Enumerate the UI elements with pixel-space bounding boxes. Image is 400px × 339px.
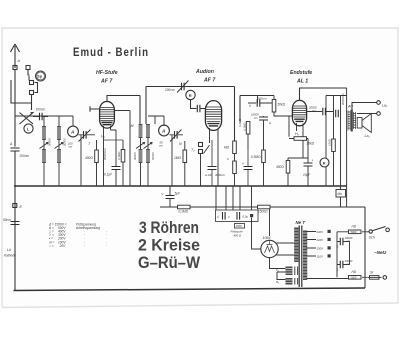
terminal La2 bottom bbox=[377, 112, 381, 116]
tube U1 AF7 HF pentode bbox=[100, 102, 115, 134]
resistor 0,1M smoothing bbox=[178, 205, 191, 209]
svg-text:1000: 1000 bbox=[351, 275, 357, 279]
svg-text:Δ: Δ bbox=[336, 245, 339, 249]
antenna coil L1b bbox=[42, 149, 46, 163]
svg-text:Sp: Sp bbox=[37, 75, 42, 79]
audion cathode to bus bbox=[217, 135, 219, 186]
svg-text:K: K bbox=[323, 160, 326, 165]
coil tap switch arrow 4 bbox=[144, 143, 153, 149]
antenna coil L1a bbox=[42, 126, 46, 140]
capacitor earth series bbox=[11, 222, 20, 225]
wire anode resistor down bbox=[234, 154, 236, 162]
svg-text:T₂: T₂ bbox=[191, 148, 195, 152]
smoothing cap 10000cm lower bbox=[337, 264, 350, 266]
field coil 1500 box bbox=[235, 224, 245, 229]
band switch cross L bbox=[20, 113, 34, 125]
antenna terminal left bbox=[13, 66, 17, 70]
terminal La2 top bbox=[377, 101, 381, 105]
wire anode supply row bbox=[240, 96, 274, 122]
filter cap 1 bbox=[223, 212, 226, 220]
svg-text:20000cm: 20000cm bbox=[341, 93, 345, 106]
loudspeaker bbox=[357, 114, 371, 133]
primary winding tapped bbox=[303, 231, 307, 281]
wire trimmer branch to bus bbox=[80, 135, 82, 186]
wire filter to rectifier bbox=[252, 218, 261, 250]
wire bbox=[140, 138, 142, 149]
resistor 1000 mains return bbox=[349, 276, 362, 280]
svg-text:+: + bbox=[312, 159, 314, 163]
svg-text:Δ: Δ bbox=[9, 142, 12, 146]
svg-text:50cm: 50cm bbox=[3, 218, 11, 222]
fuse Si bbox=[370, 276, 380, 280]
svg-text:20000: 20000 bbox=[63, 138, 67, 147]
coil tap switch arrow 2 bbox=[55, 143, 64, 149]
svg-text:LA: LA bbox=[7, 248, 11, 252]
page bottom edge bbox=[2, 303, 398, 308]
heater wires bbox=[270, 258, 286, 280]
capacitor 5uF with Y bbox=[169, 186, 171, 207]
svg-text:400Ω: 400Ω bbox=[85, 156, 93, 160]
svg-text:10μF: 10μF bbox=[303, 173, 311, 177]
svg-text:400 Ω: 400 Ω bbox=[234, 234, 242, 238]
audion bypass capacitor 4000cm bbox=[208, 167, 217, 170]
svg-text:HD: HD bbox=[352, 225, 357, 229]
svg-text:0,5μ: 0,5μ bbox=[243, 215, 249, 219]
box Mo bbox=[336, 190, 346, 198]
svg-text:0,1MΩ: 0,1MΩ bbox=[242, 122, 246, 131]
svg-text:Δ: Δ bbox=[248, 104, 251, 108]
switch Sp circle bbox=[36, 71, 46, 81]
wire bbox=[58, 140, 60, 149]
grid cap wire tube U1 bbox=[90, 106, 100, 112]
grid leak resistor 1M bbox=[183, 150, 187, 163]
svg-text:Kathode: Kathode bbox=[4, 254, 16, 258]
switch Sch bbox=[369, 230, 372, 233]
svg-text:La₁: La₁ bbox=[365, 134, 371, 138]
wire antenna lead to bottom bbox=[14, 151, 16, 291]
svg-text:1500Ω: 1500Ω bbox=[258, 210, 268, 214]
HV secondary winding bbox=[294, 228, 298, 263]
lamp circle K bbox=[320, 158, 329, 167]
HF coupling coil primary b bbox=[139, 149, 143, 163]
svg-text:1500: 1500 bbox=[236, 224, 243, 228]
HF coupling coil secondary b bbox=[146, 149, 150, 163]
coil tap switch arrow 3 bbox=[136, 143, 145, 149]
svg-text:100cm: 100cm bbox=[165, 88, 175, 92]
anode wire AL1 up bbox=[300, 88, 347, 100]
wire trimmer2 to bus bbox=[171, 135, 173, 186]
rectifier tube 1064 bbox=[261, 240, 278, 257]
HF coupling coil primary a bbox=[139, 124, 143, 138]
resistor C 0,2M bbox=[233, 161, 237, 174]
switch bracket bbox=[29, 76, 38, 103]
electrolytic 10uF bbox=[304, 163, 313, 166]
svg-text:30000: 30000 bbox=[133, 152, 137, 160]
svg-text:Audion: Audion bbox=[195, 69, 214, 75]
svg-text:AF 7: AF 7 bbox=[100, 79, 113, 85]
filter capacitor bank box bbox=[216, 210, 259, 222]
svg-text:Si: Si bbox=[370, 271, 373, 275]
wire coil2 to bus bbox=[58, 163, 60, 186]
cathode node wire bbox=[288, 157, 308, 159]
svg-text:Δ: Δ bbox=[216, 215, 219, 219]
svg-text:G–Rü–W: G–Rü–W bbox=[138, 254, 200, 272]
potentiometer circle R bbox=[186, 90, 195, 99]
svg-text:Δ 100: Δ 100 bbox=[204, 173, 213, 177]
resistor 150 ohm bbox=[332, 139, 336, 152]
screen resistor 0,1M bbox=[121, 150, 125, 163]
svg-text:150Ω: 150Ω bbox=[328, 138, 332, 146]
svg-text:A: A bbox=[17, 59, 21, 63]
svg-text:Sch: Sch bbox=[369, 236, 375, 240]
svg-text:2 Kreise: 2 Kreise bbox=[138, 237, 200, 255]
wire coil1 to bus bbox=[43, 163, 45, 186]
tube U3 AL1 output pentode bbox=[292, 100, 306, 158]
svg-text:Mo: Mo bbox=[338, 192, 343, 196]
svg-text:200cm: 200cm bbox=[19, 154, 30, 158]
svg-text:A: A bbox=[161, 129, 165, 134]
wire antenna down-lead bbox=[14, 70, 16, 147]
coupling capacitor 500cm bbox=[248, 96, 272, 104]
tap wires bbox=[307, 232, 317, 257]
svg-text:~Netz: ~Netz bbox=[374, 250, 387, 255]
screen grid wire bbox=[114, 111, 130, 187]
svg-text:AF 7: AF 7 bbox=[203, 78, 216, 84]
capacitor Y audion out bbox=[244, 167, 253, 170]
svg-text:0,5MΩ: 0,5MΩ bbox=[251, 155, 261, 159]
trimmer T bbox=[84, 131, 87, 139]
grid leak 0,5M bbox=[262, 150, 266, 163]
svg-text:4000cm: 4000cm bbox=[215, 173, 226, 177]
svg-text:50000: 50000 bbox=[151, 152, 155, 160]
terminal E bbox=[13, 204, 17, 208]
wire to bus bbox=[147, 163, 149, 186]
smoothing cap 10000cm upper bbox=[337, 242, 350, 265]
verticals to filter bank bbox=[216, 186, 252, 210]
ground bus main bbox=[14, 185, 347, 187]
svg-text:MΩ: MΩ bbox=[224, 146, 230, 150]
feedback capacitor 100cm bbox=[182, 83, 185, 91]
svg-text:100cm: 100cm bbox=[36, 108, 46, 112]
HV winding wires to rectifier bbox=[277, 243, 295, 255]
wire bbox=[43, 140, 45, 149]
resistor 0,1M bbox=[246, 122, 250, 135]
svg-text:5000: 5000 bbox=[351, 230, 357, 234]
svg-text:220V: 220V bbox=[316, 238, 325, 242]
resistor 5000 mains bbox=[349, 230, 362, 234]
cathode wires below U1 bbox=[104, 130, 117, 186]
svg-text:HF-Stufe: HF-Stufe bbox=[96, 70, 118, 76]
junction wire bbox=[104, 139, 124, 141]
resistor 50k anode load bbox=[272, 100, 276, 113]
bottom return wire bbox=[14, 288, 366, 291]
wire bbox=[147, 138, 149, 149]
svg-text:AL 1: AL 1 bbox=[296, 79, 308, 85]
mains return row bbox=[307, 277, 368, 278]
svg-text:50000: 50000 bbox=[48, 138, 52, 146]
svg-text:240V: 240V bbox=[316, 230, 325, 234]
svg-text:1064: 1064 bbox=[263, 236, 271, 240]
anode resistor 0,1M audion bbox=[233, 141, 237, 154]
cathode resistor 400 ohm bbox=[286, 161, 290, 174]
capacitor 0,1uF bbox=[112, 167, 121, 170]
HF coupling coil secondary a bbox=[146, 124, 150, 138]
grid capacitor audion bbox=[197, 105, 200, 113]
switch T2 bbox=[199, 143, 203, 147]
svg-text:0,1MΩ: 0,1MΩ bbox=[117, 151, 121, 160]
cap on screen line bbox=[336, 110, 339, 118]
svg-text:A: A bbox=[70, 130, 74, 135]
screen cap 20000cm bbox=[307, 111, 334, 113]
speaker terminal wires bbox=[352, 103, 377, 114]
wire switch to coil box bbox=[11, 80, 32, 110]
trimmer N bbox=[175, 131, 178, 139]
svg-text:1MΩ: 1MΩ bbox=[174, 156, 181, 160]
grid wire to audion bbox=[191, 100, 206, 109]
tap node squares bbox=[328, 230, 331, 233]
svg-text:Endstufe: Endstufe bbox=[290, 70, 312, 76]
feedback wire top bbox=[146, 87, 235, 142]
svg-text:Δ: Δ bbox=[336, 268, 339, 272]
svg-text:130V: 130V bbox=[317, 247, 325, 251]
wire grid row HF input bbox=[15, 116, 73, 126]
svg-text:M: M bbox=[131, 124, 134, 128]
heater winding R2 bbox=[286, 278, 298, 285]
svg-text:H₂: H₂ bbox=[295, 132, 300, 136]
antenna terminal right bbox=[26, 66, 30, 70]
wire Mo to row bbox=[340, 186, 342, 207]
heater winding F2 bbox=[286, 267, 298, 276]
anode wire tube U1 to coil bbox=[107, 96, 140, 125]
test point circle A (HF grid) bbox=[68, 126, 79, 137]
svg-text:0,1MΩ: 0,1MΩ bbox=[179, 210, 189, 214]
tube U2 AF7 audion bbox=[205, 101, 221, 143]
secondary coil L2a bbox=[57, 126, 61, 140]
vertical B+ return bbox=[364, 207, 366, 288]
svg-text:500cm: 500cm bbox=[258, 97, 267, 101]
svg-text:3 Röhren: 3 Röhren bbox=[139, 219, 199, 237]
coil tap switch arrow 1 bbox=[40, 143, 49, 149]
switch contact upper bbox=[30, 81, 34, 85]
filter bank node square bbox=[250, 214, 253, 217]
coupling capacitor 10000cm bbox=[259, 117, 268, 120]
resistor 1500 ohm in row bbox=[258, 205, 271, 209]
svg-text:50kΩ: 50kΩ bbox=[278, 103, 286, 107]
svg-text:R: R bbox=[189, 93, 192, 98]
svg-text:La₂: La₂ bbox=[382, 104, 388, 108]
filter cap 2 bbox=[237, 212, 240, 220]
mains terminal bbox=[383, 276, 387, 280]
mains feed wire bbox=[337, 232, 369, 277]
svg-text:Δ: Δ bbox=[268, 121, 271, 125]
svg-text:HD: HD bbox=[352, 270, 357, 274]
wire grid row audion bbox=[148, 116, 164, 126]
wire row to rectifier top bbox=[269, 207, 271, 236]
legend voltage table bbox=[48, 222, 107, 248]
circle L bbox=[24, 124, 33, 133]
wire from right terminal to band switch bbox=[28, 70, 30, 76]
supply row wire bbox=[160, 206, 365, 208]
right supply verticals bbox=[326, 88, 347, 207]
resistor 400 ohm cathode bbox=[95, 150, 99, 163]
svg-text:0,1μF: 0,1μF bbox=[104, 173, 113, 177]
switch contact lower bbox=[30, 91, 34, 95]
secondary coil L2b bbox=[57, 149, 61, 163]
svg-text:400Ω: 400Ω bbox=[276, 165, 284, 169]
capacitor 200cm (antenna series) bbox=[11, 148, 20, 151]
svg-text:20000cm: 20000cm bbox=[103, 148, 107, 161]
grid resistor 10k bbox=[289, 116, 294, 139]
svg-text:Emud - Berlin: Emud - Berlin bbox=[73, 47, 149, 59]
wire resistor to grid node bbox=[274, 96, 292, 117]
wire to bus bbox=[140, 163, 142, 186]
test point circle A (audion grid) bbox=[159, 125, 170, 136]
svg-text:N: N bbox=[179, 142, 182, 146]
antenna symbol bbox=[11, 44, 20, 68]
wire K branch bbox=[325, 96, 327, 187]
svg-text:Ne T: Ne T bbox=[296, 220, 306, 225]
